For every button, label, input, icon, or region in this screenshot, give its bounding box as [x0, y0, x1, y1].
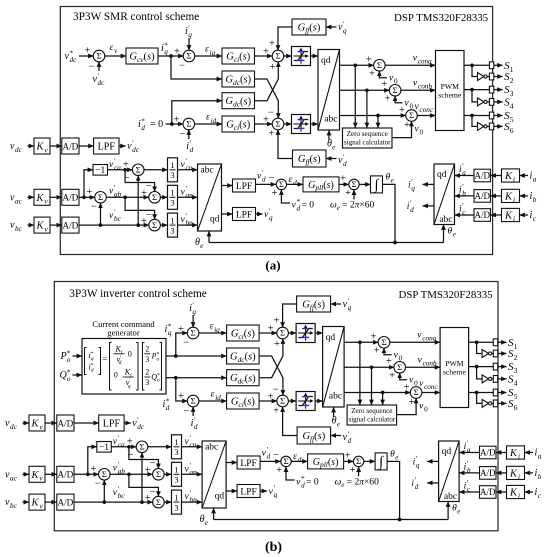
block Ki ib [507, 466, 525, 479]
theta_e into qd-abc [333, 407, 335, 417]
svg-text:a: a [467, 446, 471, 454]
svg-text:Σ: Σ [377, 60, 382, 70]
DSP frame [60, 7, 492, 255]
wire ib to Ki [520, 195, 529, 197]
svg-text:scheme: scheme [438, 90, 462, 99]
wire to Gci2 [194, 123, 222, 125]
svg-text:A/D: A/D [480, 487, 496, 497]
svg-text:+: + [145, 493, 151, 504]
wire vdc to Kv [23, 422, 30, 424]
summer v0 c [410, 387, 422, 399]
wire sum ab out [110, 473, 153, 475]
summer d2 [277, 395, 289, 407]
svg-text:−: − [183, 337, 189, 348]
svg-text:−: − [269, 173, 275, 184]
wire Kv to AD bc [45, 501, 57, 503]
block LPF d [237, 456, 260, 469]
wire pll sum to Gpll [287, 183, 303, 185]
svg-text:+: + [370, 332, 376, 343]
node iq branch [169, 54, 173, 58]
wire AD bc to sum bn [79, 224, 149, 226]
wire vca to sum an minus [123, 168, 127, 172]
svg-text:= 0: = 0 [150, 119, 163, 130]
svg-text:= 0: = 0 [306, 477, 319, 487]
svg-text:b: b [467, 467, 471, 475]
svg-text:=: = [102, 354, 107, 364]
limiter d [296, 392, 315, 411]
svg-text:LPF: LPF [98, 142, 116, 153]
svg-text:q: q [188, 31, 192, 39]
svg-text:b: b [533, 196, 537, 204]
svg-text:+: + [90, 464, 96, 475]
block Gff q [297, 296, 331, 312]
svg-text:bc: bc [118, 492, 126, 500]
summer bn [149, 219, 161, 231]
svg-text:Gff(s): Gff(s) [302, 299, 325, 311]
svg-text:d: d [293, 179, 297, 187]
svg-text:b: b [538, 473, 542, 481]
svg-text:d: d [267, 453, 271, 461]
wire row b [340, 89, 390, 91]
svg-text:d: d [343, 160, 347, 168]
wire iq* to Gdc1 [176, 355, 227, 357]
node row b to zs [370, 365, 374, 369]
block Gff q [292, 19, 326, 35]
svg-text:1: 1 [170, 188, 174, 198]
svg-text:Σ: Σ [393, 85, 398, 95]
svg-text:3: 3 [174, 447, 178, 457]
summer iq [187, 327, 199, 339]
block AD ia [474, 169, 491, 182]
arrow S6 [494, 125, 503, 127]
svg-text:q: q [411, 185, 415, 193]
wire AD ac to sum ab [79, 196, 95, 198]
svg-text:K: K [30, 419, 39, 430]
svg-text:ε: ε [293, 452, 297, 462]
wire Gci2 to summer d2 [259, 400, 277, 402]
arrow S5 [498, 392, 507, 394]
block Gci2 [227, 393, 260, 409]
svg-text:A/D: A/D [62, 220, 78, 230]
svg-text:cn: cn [186, 164, 193, 172]
svg-text:+: + [270, 62, 276, 73]
svg-text:−1: −1 [99, 443, 109, 453]
svg-text:−: − [273, 385, 279, 396]
we stub [353, 190, 355, 200]
svg-text:−: − [273, 450, 279, 461]
summer q2 [277, 327, 289, 339]
svg-text:Σ: Σ [102, 469, 107, 479]
wire AD bc to sum bn [74, 501, 153, 503]
arrow S4 [498, 378, 507, 380]
svg-text:d: d [301, 482, 305, 490]
wire qd out q to LPF [226, 490, 237, 492]
svg-text:i: i [518, 492, 520, 500]
wire vab to sum bn minus [125, 197, 155, 219]
block LPF dc [99, 415, 124, 431]
svg-text:abc: abc [201, 166, 214, 176]
svg-text:ε: ε [211, 390, 215, 400]
svg-text:2: 2 [145, 368, 149, 377]
svg-text:i: i [513, 176, 515, 184]
svg-text:Σ: Σ [156, 497, 161, 507]
svg-text:−: − [91, 202, 97, 213]
block AD dc [57, 415, 74, 431]
wire v_conc to PWM [417, 115, 436, 117]
svg-text:Σ: Σ [139, 442, 144, 452]
cross wire Gdc2 to summer q2 [255, 62, 279, 101]
block -1 [93, 165, 108, 176]
svg-text:5: 5 [514, 392, 518, 401]
svg-text:+: + [85, 45, 91, 56]
svg-text:+: + [345, 188, 351, 199]
wire AD ac to sum ab [74, 473, 99, 475]
vdc' feedback stub [98, 62, 100, 72]
svg-text:dc: dc [132, 146, 140, 154]
wire Kv to AD bc [50, 224, 62, 226]
svg-text:+: + [386, 356, 392, 367]
svg-text:i: i [518, 453, 520, 461]
pll summer 2 [349, 179, 359, 189]
summer v0 c [406, 110, 418, 122]
block LPF d [233, 179, 256, 192]
arrow S3 [498, 366, 507, 368]
wire row a [344, 341, 378, 343]
summer v0 a [374, 60, 386, 72]
svg-text:1: 1 [174, 465, 178, 475]
wire v0 from zs calculator [397, 398, 417, 415]
svg-text:a: a [538, 453, 542, 461]
svg-text:Σ: Σ [186, 119, 191, 129]
wire Ki to AD ib [496, 472, 507, 474]
block Ki ia [507, 446, 525, 459]
svg-text:A/D: A/D [475, 171, 491, 181]
wire vbc into sum ab [103, 480, 105, 502]
cross wire Gdc2 to summer q2 [259, 339, 283, 378]
svg-text:1: 1 [510, 65, 514, 74]
PWM scheme box [440, 328, 469, 408]
svg-text:+: + [145, 465, 151, 476]
wire id branch to Gdc2 [172, 101, 222, 124]
svg-text:(b): (b) [265, 540, 282, 555]
svg-text:+: + [369, 68, 375, 79]
block LPF dc [94, 138, 119, 154]
block Gci2 [222, 116, 255, 132]
svg-text:Σ: Σ [280, 396, 285, 406]
not gate S4 [482, 375, 489, 383]
wire AD dc to LPF [79, 145, 94, 147]
pll summer 1 [281, 456, 291, 466]
pin S5 [489, 112, 493, 119]
node row a to zs [358, 340, 362, 344]
current command generator box [82, 339, 166, 395]
wire -1 to sum ca [108, 169, 133, 171]
svg-text:Σ: Σ [191, 328, 196, 338]
svg-text:d: d [262, 176, 266, 184]
wire v_conb to PWM [405, 366, 440, 368]
block Gdc2 [227, 370, 260, 386]
svg-text:dc: dc [15, 146, 23, 154]
wire PWM out S5 [464, 115, 489, 117]
block Gdc1 [227, 348, 260, 364]
summer ca [136, 441, 148, 453]
wire limiter d to qd-abc [315, 400, 323, 402]
svg-text:0: 0 [114, 371, 118, 380]
wire Ki to AD ic [491, 214, 502, 216]
id' stub into summer [188, 130, 190, 140]
summer q2 [272, 50, 284, 62]
wire Ki to AD ic [496, 491, 507, 493]
block 1/3 b [168, 213, 178, 237]
svg-text:5: 5 [510, 115, 514, 124]
svg-text:Σ: Σ [275, 51, 280, 61]
svg-text:−: − [179, 60, 185, 71]
svg-text:q: q [164, 48, 168, 56]
wire AD dc to LPF [74, 422, 99, 424]
theta feedback wire [387, 461, 400, 519]
svg-text:+: + [272, 188, 278, 199]
not gate S6 [478, 122, 485, 130]
wire PWM out S1 [464, 64, 489, 66]
svg-text:DSP TMS320F28335: DSP TMS320F28335 [394, 12, 489, 24]
block Kv bc [34, 217, 50, 233]
v0 stub a [384, 348, 392, 355]
v0 stub b [395, 96, 402, 103]
svg-text:A/D: A/D [475, 191, 491, 201]
svg-text:dc: dc [137, 423, 145, 431]
svg-text:Σ: Σ [397, 362, 402, 372]
not gate S4 [478, 98, 485, 106]
output id' [427, 482, 439, 484]
wire v_cona to PWM [385, 64, 436, 66]
wire vab to sum bn minus [129, 474, 159, 496]
svg-text:K: K [35, 142, 44, 153]
svg-text:LPF: LPF [236, 210, 252, 220]
svg-text:A/D: A/D [62, 193, 78, 203]
block AD dc [62, 138, 79, 154]
svg-text:q: q [192, 308, 196, 316]
svg-text:ab: ab [118, 467, 126, 475]
pin S5 [493, 389, 497, 396]
wire gate to pin S6 [492, 402, 494, 404]
svg-text:K: K [30, 498, 39, 509]
svg-text:d: d [166, 404, 170, 412]
wire Gff to summer q2 [283, 304, 297, 328]
svg-text:qd: qd [215, 492, 225, 502]
wire to Gci2 [199, 400, 227, 402]
wire Kv to AD ac [50, 196, 62, 198]
theta bus [398, 518, 402, 522]
wire id* to Gdc2 [176, 377, 227, 379]
vd*=0 stub [286, 467, 295, 480]
wire vac to Kv [28, 196, 35, 198]
limiter q [296, 324, 315, 343]
svg-text:LPF: LPF [103, 419, 121, 430]
svg-text:DSP TMS320F28335: DSP TMS320F28335 [399, 289, 494, 301]
wire ic to Ki [525, 491, 534, 493]
node row a to zs [353, 63, 357, 67]
svg-text:d: d [297, 205, 301, 213]
svg-text:ωe = 2π×60: ωe = 2π×60 [335, 477, 379, 489]
output iq' [423, 183, 435, 185]
block Gcv [126, 48, 158, 64]
svg-text:abc: abc [329, 392, 342, 402]
svg-text:bc: bc [15, 225, 23, 233]
svg-text:Zero sequence: Zero sequence [351, 407, 392, 415]
svg-text:+: + [178, 391, 184, 402]
svg-text:d: d [415, 483, 419, 491]
wire PWM out S3 [469, 366, 494, 368]
block AD ic [474, 209, 491, 222]
svg-text:−: − [184, 406, 190, 417]
node vac branch [82, 195, 86, 199]
svg-text:ε: ε [110, 43, 114, 53]
svg-text:1: 1 [170, 216, 174, 226]
svg-text:K: K [509, 488, 518, 499]
wire vac to -1 [88, 447, 97, 475]
wire vdc to Kv [28, 145, 35, 147]
wire Ki to AD ia [496, 452, 507, 454]
branch to inverter S2 [477, 342, 483, 353]
wire Gpll to pll sum2 [344, 460, 354, 462]
svg-text:1: 1 [170, 160, 174, 170]
block Gpll [303, 177, 339, 192]
wire sum ab out [106, 196, 149, 198]
wire vac to -1 [84, 170, 93, 198]
svg-text:K: K [504, 171, 513, 182]
svg-text:d: d [194, 423, 198, 431]
svg-text:LPF: LPF [240, 459, 256, 469]
block AD bc [62, 217, 79, 233]
v0 stub b [400, 373, 407, 380]
svg-text:cona: cona [422, 334, 436, 342]
theta_e into abc-qd [213, 508, 215, 520]
wire PWM out S1 [469, 341, 494, 343]
svg-text:o: o [67, 356, 71, 364]
branch to inverter S4 [477, 367, 483, 379]
PWM scheme box [436, 51, 465, 131]
svg-text:d: d [410, 206, 414, 214]
wire Gci2 to summer d2 [255, 123, 273, 125]
wire summer q2 to limiter q [288, 332, 296, 334]
block Ki ic [507, 485, 525, 498]
wire 1/3 to abc-qd cn [178, 169, 198, 171]
summer ab [95, 192, 107, 204]
block LPF q [237, 485, 260, 498]
wire sum an to 1/3 [160, 196, 167, 198]
svg-text:A/D: A/D [62, 141, 78, 151]
block Kv dc [34, 138, 50, 154]
wire gate to pin S2 [487, 76, 489, 78]
block AD ib [480, 467, 497, 480]
svg-text:3: 3 [145, 355, 149, 364]
summer vdc [93, 50, 105, 62]
arrow S1 [494, 64, 503, 66]
block Gdc1 [222, 71, 255, 87]
svg-text:+: + [366, 55, 372, 66]
svg-text:bn: bn [190, 496, 198, 504]
svg-text:an: an [190, 468, 198, 476]
wire Kv to AD dc [50, 145, 62, 147]
wire pll sum to Gpll [291, 460, 307, 462]
wire row a [340, 64, 374, 66]
wire sum ca to 1/3 [148, 446, 172, 448]
svg-text:1: 1 [174, 493, 178, 503]
svg-text:+: + [276, 465, 282, 476]
svg-text:ac: ac [10, 474, 18, 482]
output iq' [427, 460, 439, 462]
svg-text:q: q [343, 27, 347, 35]
svg-text:iq: iq [214, 326, 220, 334]
wire AD to transform ia [455, 175, 475, 177]
not gate S6 [482, 399, 489, 407]
block Gdc2 [222, 93, 255, 109]
node row b to zs [365, 88, 369, 92]
wire sum ca to 1/3 [144, 169, 168, 171]
svg-text:6: 6 [514, 403, 518, 412]
svg-text:qd: qd [210, 215, 220, 225]
wire vbc into sum ca [137, 175, 139, 225]
svg-text:generator: generator [107, 328, 140, 338]
wire v_cona to PWM [390, 341, 441, 343]
wire LPF q out vq' [260, 490, 267, 492]
pin S4 [489, 99, 493, 106]
svg-text:conb: conb [423, 359, 437, 367]
svg-text:d: d [190, 146, 194, 154]
wire Ki to AD ia [491, 175, 502, 177]
svg-text:+: + [409, 397, 415, 408]
svg-text:Σ: Σ [156, 469, 161, 479]
pin S6 [489, 123, 493, 130]
wire sum bn to 1/3 [164, 501, 172, 503]
arrow S1 [498, 341, 507, 343]
wire AD to transform ia [459, 452, 479, 454]
pin S1 [489, 62, 493, 69]
svg-text:qd: qd [326, 333, 336, 343]
block Gci1 [222, 48, 255, 64]
block AD ac [62, 189, 79, 205]
label vdc' out [119, 145, 126, 147]
v0 stub a [379, 71, 387, 78]
svg-text:A/D: A/D [57, 418, 73, 428]
wire 1/3 to abc-qd an [178, 196, 198, 198]
svg-text:bc: bc [114, 215, 122, 223]
wire pll sum2 to integrator [359, 183, 370, 185]
svg-text:Gff(s): Gff(s) [302, 431, 325, 443]
svg-text:1: 1 [514, 342, 518, 351]
block AD bc [57, 494, 74, 510]
svg-text:Σ: Σ [381, 337, 386, 347]
block Kv ac [29, 466, 45, 482]
svg-text:Σ: Σ [96, 51, 101, 61]
svg-text:bc: bc [10, 502, 18, 510]
svg-text:conc: conc [420, 106, 434, 114]
limiter q [292, 47, 311, 66]
svg-text:cona: cona [418, 57, 432, 65]
svg-text:+: + [389, 371, 395, 382]
wire gate to pin S4 [492, 378, 494, 380]
node row c to zs [381, 391, 385, 395]
wire row c [344, 392, 411, 394]
svg-text:qd: qd [442, 447, 452, 457]
summer bn [153, 496, 165, 508]
svg-text:dc: dc [70, 56, 78, 64]
svg-text:qd: qd [321, 56, 331, 66]
summer an [149, 192, 161, 204]
wire PWM out S5 [469, 392, 494, 394]
svg-text:+: + [385, 94, 391, 105]
wire summer q2 to limiter q [284, 55, 292, 57]
